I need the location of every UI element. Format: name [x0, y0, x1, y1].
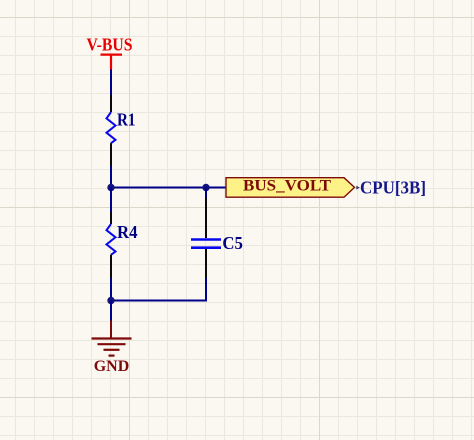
resistor R1: [107, 95, 136, 166]
cross-reference arrow: [356, 186, 360, 190]
wire node A to R4: [110, 188, 112, 213]
power port V-BUS: [87, 34, 133, 69]
svg-text:GND: GND: [94, 358, 130, 375]
capacitor C5: [191, 188, 243, 279]
svg-text:R4: R4: [117, 222, 138, 242]
wire node A to port: [111, 187, 226, 189]
wire V-BUS to R1: [110, 70, 112, 96]
wire C5 to node C: [111, 278, 206, 301]
wire node C to ground: [110, 301, 112, 321]
svg-text:R1: R1: [117, 109, 136, 129]
port BUS_VOLT: [226, 178, 355, 198]
node B junction (C5 tap): [202, 184, 209, 191]
svg-text:CPU[3B]: CPU[3B]: [360, 178, 426, 198]
wire R1 to node A: [110, 166, 112, 188]
svg-text:C5: C5: [222, 233, 243, 253]
svg-text:BUS_VOLT: BUS_VOLT: [243, 178, 332, 195]
resistor R4: [107, 212, 138, 278]
node A junction: [107, 184, 114, 191]
node C junction: [107, 297, 114, 304]
ground GND: [92, 321, 132, 376]
wire R4 to node C: [110, 278, 112, 301]
svg-text:V-BUS: V-BUS: [87, 34, 133, 54]
